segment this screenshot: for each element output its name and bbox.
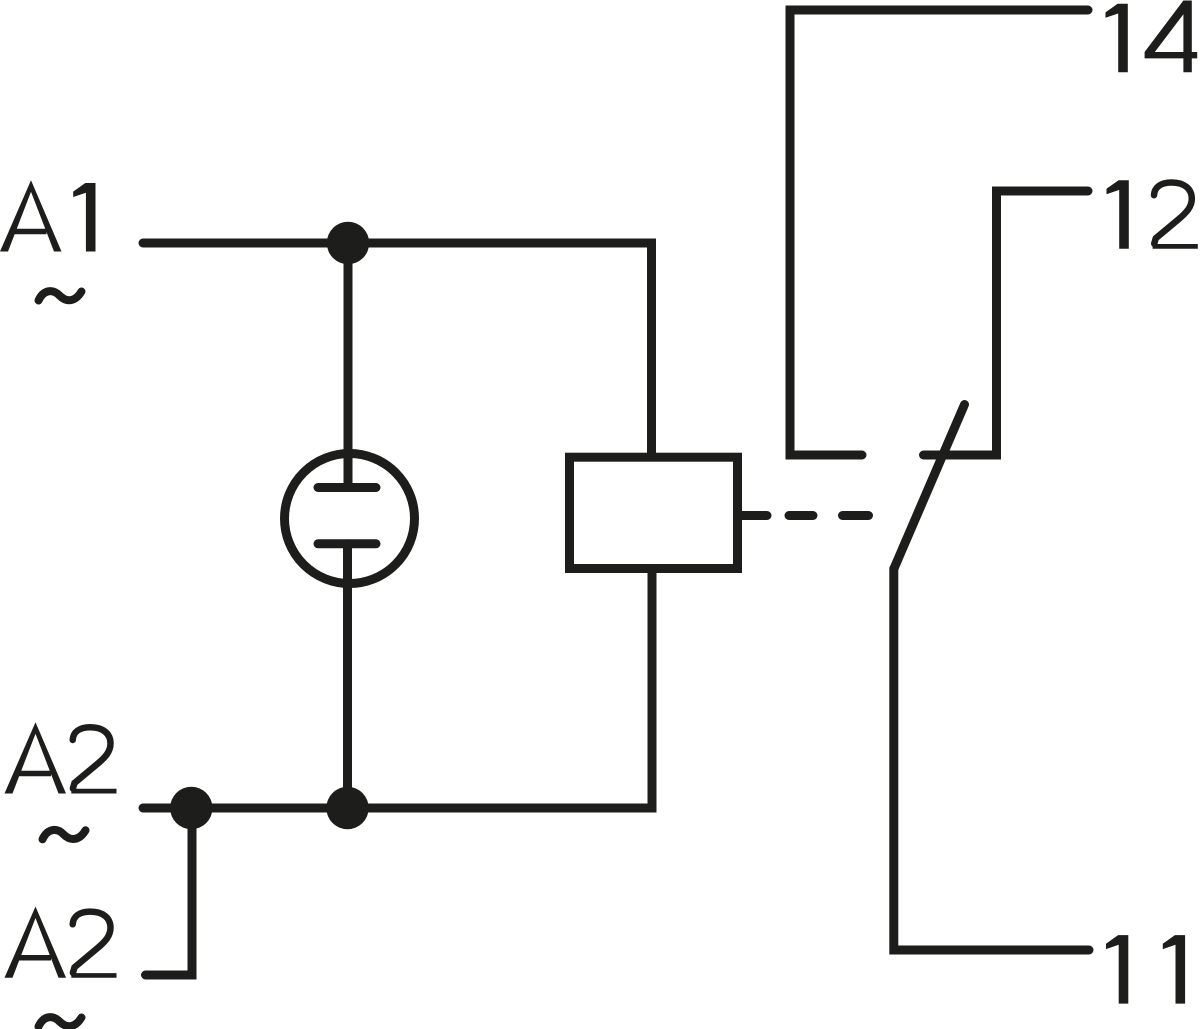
glow lamp top electrode bbox=[318, 483, 376, 492]
wire terminal 12 bbox=[924, 191, 1089, 455]
wire terminal 14 bbox=[790, 10, 1088, 455]
wire A2 to coil bottom bbox=[143, 572, 652, 808]
AC symbol under A2 lower bbox=[39, 1017, 82, 1026]
switch lever (changeover contact) bbox=[894, 405, 965, 569]
wire terminal 11 pole bbox=[894, 569, 1089, 951]
glow lamp bottom electrode bbox=[318, 539, 376, 548]
terminal label 14 bbox=[1106, 1, 1198, 73]
junction dot lamp branch on A2 wire bbox=[326, 787, 368, 829]
terminal label A2 upper bbox=[5, 722, 117, 793]
terminal label 12 bbox=[1107, 180, 1198, 249]
wire lamp bottom electrode to A2 bbox=[343, 544, 352, 808]
terminal label A1 bbox=[0, 180, 96, 251]
dashed actuation link coil to contact bbox=[738, 511, 767, 520]
junction dot A2 branch bbox=[170, 787, 212, 829]
glow lamp indicator circle bbox=[285, 454, 415, 584]
terminal label A2 lower bbox=[5, 907, 117, 978]
relay coil K1 bbox=[570, 457, 738, 568]
junction dot on A1 wire bbox=[327, 222, 369, 264]
terminal label 11 bbox=[1106, 935, 1185, 1004]
wire A1 to coil top bbox=[143, 243, 652, 456]
AC symbol under A1 bbox=[39, 291, 82, 300]
wire second A2 terminal bbox=[146, 808, 193, 975]
wire junction to lamp top electrode bbox=[344, 243, 353, 488]
AC symbol under A2 upper bbox=[43, 830, 86, 839]
